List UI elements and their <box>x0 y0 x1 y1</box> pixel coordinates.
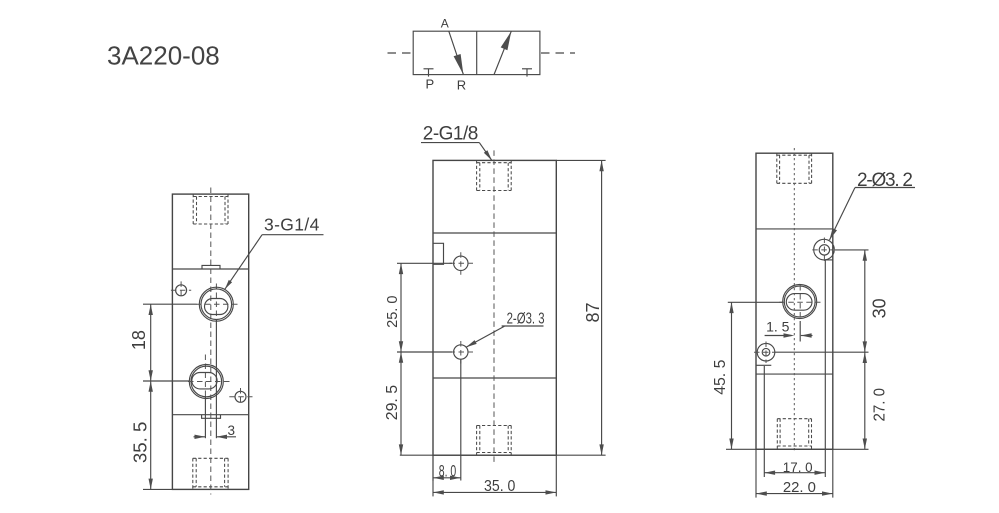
pilot hole 2 with crosshair <box>454 345 468 359</box>
port axis bottom dashed <box>204 355 206 397</box>
dim 3 arrows and leaders <box>194 436 206 438</box>
body outline middle view <box>433 160 556 455</box>
port top crosshair <box>196 303 238 305</box>
extension line small hole to 30/27 dims <box>775 351 869 353</box>
extension line hole2 center <box>397 351 452 353</box>
svg-text:A: A <box>441 17 449 31</box>
bottom edge extension line <box>726 448 869 450</box>
hidden thread hole bottom outer <box>476 426 478 456</box>
flow arrow A to R <box>449 31 464 74</box>
svg-text:30: 30 <box>869 298 889 318</box>
svg-text:P: P <box>425 77 434 92</box>
inner edge line left (17 wide section) <box>763 366 765 449</box>
port crosshair horizontal <box>779 301 820 303</box>
small hole left with crosshair <box>176 285 187 296</box>
parting line upper <box>433 232 556 234</box>
hidden thread hole bottom closures <box>477 425 512 427</box>
extension line port center left <box>728 301 783 303</box>
hidden thread hole top inner <box>779 155 781 183</box>
svg-text:27. 0: 27. 0 <box>872 388 889 422</box>
port side slot <box>786 294 812 311</box>
boss line under small hole <box>756 364 771 366</box>
svg-text:R: R <box>457 77 466 92</box>
dimension line 30 and 27.0 <box>864 250 866 449</box>
hidden thread hole bottom closures <box>777 418 811 420</box>
dim 45.5 line <box>731 302 733 449</box>
pilot hole 1 with crosshair <box>454 256 468 270</box>
body outline left view <box>172 194 248 489</box>
extension from hole2 down to 8.0 dim <box>460 359 462 480</box>
svg-text:8. 0: 8. 0 <box>439 463 457 481</box>
extension line bottom edge <box>143 488 173 490</box>
hidden thread hole bottom inner <box>779 419 781 446</box>
svg-text:25. 0: 25. 0 <box>385 296 401 328</box>
centerline vertical dotted <box>793 148 795 453</box>
hidden thread hole bottom inner <box>479 426 481 453</box>
hidden thread hole top outer <box>776 153 778 183</box>
hidden thread hole bottom outer <box>192 458 194 489</box>
svg-text:1. 5: 1. 5 <box>766 319 790 335</box>
svg-text:3A220-08: 3A220-08 <box>107 41 220 71</box>
valve symbol body box <box>413 31 540 74</box>
svg-text:18: 18 <box>129 330 149 350</box>
small hole right with crosshair <box>235 391 246 402</box>
port G1/4 top slot <box>205 299 228 315</box>
hidden thread hole top outer <box>192 194 194 224</box>
hidden thread hole top outer <box>476 160 478 190</box>
port G1/4 top outer circles <box>199 287 233 321</box>
port side view outer circles <box>783 285 817 319</box>
port axis extension for 1.5 dim <box>799 321 801 342</box>
dim 22.0 <box>755 449 757 497</box>
hidden thread hole top closures <box>477 162 512 164</box>
centerline vertical <box>493 150 495 464</box>
port G1/4 bottom outer circles <box>189 365 223 399</box>
O3.2 crosshair <box>812 249 833 251</box>
extension line bottom port center <box>143 380 189 382</box>
hidden thread hole bottom inner <box>195 458 197 487</box>
side notch on left edge <box>433 243 444 264</box>
valve symbol divider <box>476 31 478 74</box>
wire dashed pilot line left <box>388 52 414 54</box>
body outline right view <box>756 153 833 449</box>
boss bottom line <box>824 259 833 261</box>
parting line lower <box>172 414 248 416</box>
svg-text:35. 0: 35. 0 <box>484 478 515 495</box>
hidden thread hole bottom outer <box>776 419 778 450</box>
parting line upper <box>756 228 833 230</box>
hidden thread hole top closures <box>193 196 228 198</box>
blocked port P symbol <box>424 68 434 70</box>
parting line lower <box>433 377 556 379</box>
hidden thread hole top inner <box>196 197 198 225</box>
dimension line 25.0 and 29.5 <box>400 263 402 455</box>
svg-text:2-Ø3. 3: 2-Ø3. 3 <box>507 311 545 328</box>
port axis top dashed <box>215 284 217 320</box>
flow arrow right cell <box>494 31 511 74</box>
blocked port symbol right cell <box>522 68 532 70</box>
small hole left lower <box>757 343 775 361</box>
parting line lower <box>756 373 833 375</box>
extension line top port center <box>143 303 197 305</box>
tab notch above upper parting line <box>202 265 220 269</box>
port bottom crosshair <box>188 381 231 383</box>
inner edge line right (17 wide section) <box>824 260 826 449</box>
parting line upper <box>172 268 248 270</box>
hidden thread hole top inner <box>479 163 481 191</box>
O3.2 boss circle <box>814 239 835 260</box>
hidden thread hole bottom closures <box>193 457 228 459</box>
dim 35.0 <box>433 491 556 493</box>
hidden thread hole top closures <box>777 154 812 156</box>
wire dashed pilot line right <box>541 52 575 54</box>
svg-text:2-G1/8: 2-G1/8 <box>423 124 479 145</box>
extension line hole1 center <box>397 262 452 264</box>
svg-text:87: 87 <box>583 302 603 322</box>
bottom edge extension line <box>400 454 606 456</box>
dimension line 18 and 35.5 <box>150 304 152 489</box>
extension line from top port center <box>215 319 217 438</box>
svg-text:29. 5: 29. 5 <box>384 385 401 420</box>
extension line O3.2 to 30 dim <box>835 249 869 251</box>
extension line from bottom port center <box>204 396 206 438</box>
O3.2 hole <box>819 245 829 255</box>
svg-text:35. 5: 35. 5 <box>131 422 151 463</box>
dim 17.0 <box>763 449 765 477</box>
dim 87 <box>601 160 603 455</box>
svg-text:17. 0: 17. 0 <box>783 459 813 475</box>
tab notch below lower parting line <box>202 415 221 419</box>
svg-text:3-G1/4: 3-G1/4 <box>264 215 320 235</box>
svg-text:45. 5: 45. 5 <box>712 360 729 395</box>
centerline vertical <box>210 188 212 495</box>
svg-text:3: 3 <box>228 423 236 438</box>
dim 8.0 <box>433 477 461 479</box>
port axis dashed <box>799 285 801 319</box>
port G1/4 bottom slot <box>192 373 217 389</box>
svg-text:22. 0: 22. 0 <box>783 479 816 496</box>
